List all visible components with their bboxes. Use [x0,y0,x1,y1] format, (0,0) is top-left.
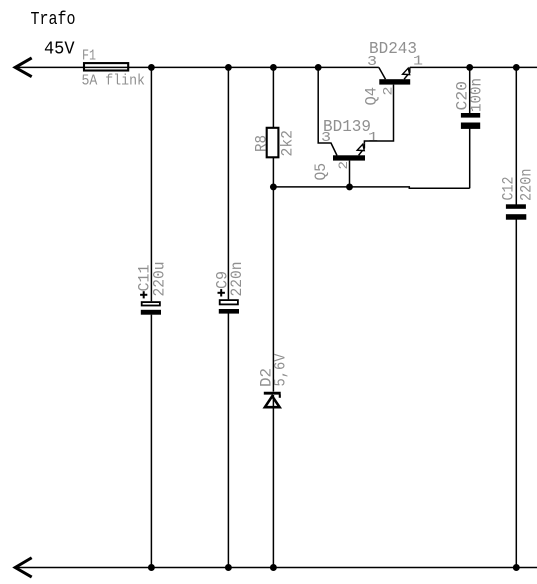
node junction R8 top [270,64,277,71]
node junction D2 bottom [270,564,277,571]
svg-text:2: 2 [336,161,351,170]
wire C11 vertical top [150,67,152,301]
svg-text:5A flink: 5A flink [82,73,146,90]
emitter lead [359,143,365,155]
base lead down [349,161,351,187]
svg-text:R8: R8 [253,135,271,152]
svg-text:Q5: Q5 [312,163,330,181]
resistor R8 [267,128,279,158]
wire C11 vertical bottom [150,315,152,568]
wire R8 vertical top [272,67,274,127]
fuse F1 [84,63,128,70]
node junction C11 top [148,64,155,71]
capacitor C12 [506,204,526,219]
svg-text:C12: C12 [500,177,518,201]
node junction C12 top [513,64,520,71]
svg-text:1: 1 [368,130,378,146]
svg-text:2k2: 2k2 [279,130,297,157]
svg-text:F1: F1 [82,47,96,64]
plus polarity mark C11 [140,291,147,298]
zener diode D2 [264,393,281,407]
transistor Q5 BD139 [333,143,365,187]
svg-text:220u: 220u [151,262,169,297]
node junction C20 top [466,64,473,71]
svg-text:3: 3 [367,54,377,70]
transistor Q4 BD243 [379,67,410,84]
capacitor C20 [461,113,480,129]
svg-text:Trafo: Trafo [31,10,76,30]
plus polarity mark C9 [218,289,225,296]
svg-text:3: 3 [321,130,331,146]
wire top rail left (45V net) [15,66,379,68]
wire C12 vertical bottom [515,219,517,567]
base bar [333,155,365,160]
node junction C12 bottom [513,564,520,571]
node junction C9 top [225,64,232,71]
wire D2 bottom [272,395,274,568]
svg-text:45V: 45V [44,40,75,60]
emitter arrow [357,144,364,150]
connector arrow top left [15,59,30,76]
svg-text:100n: 100n [468,78,486,112]
node junction R8/mid-wire [270,183,277,190]
wire C9 vertical bottom [227,314,229,568]
wire bottom rail [15,567,537,569]
wire top rail right (output net) [410,66,537,68]
wire R8 bottom to D2 [272,157,274,391]
wire C20 vertical top [469,67,471,113]
wire Q4 base route [364,85,393,144]
svg-text:5,6V: 5,6V [271,353,289,386]
wire C9 vertical top [227,67,229,299]
connector arrow bottom left [15,559,30,577]
collector lead [379,67,386,79]
svg-text:Q4: Q4 [363,87,381,106]
wire C12 vertical top [515,67,517,204]
emitter arrow [403,68,410,74]
wire C20 bottom to mid wire [469,128,471,188]
wire through fuse [83,66,129,68]
svg-text:2: 2 [381,87,396,96]
capacitor C9 [219,300,239,314]
node junction C9 bottom [225,564,232,571]
emitter lead [404,67,410,79]
node junction Q5 collector top [315,64,322,71]
node junction Q5 base/mid-wire [346,183,353,190]
svg-text:220n: 220n [228,262,246,297]
wire Q5 collector vertical [318,67,337,155]
node junction C11 bottom [148,564,155,571]
wire mid horizontal (base net) [273,187,469,188]
capacitor C11 [141,302,161,315]
svg-text:220n: 220n [518,169,536,202]
base bar [379,79,410,84]
